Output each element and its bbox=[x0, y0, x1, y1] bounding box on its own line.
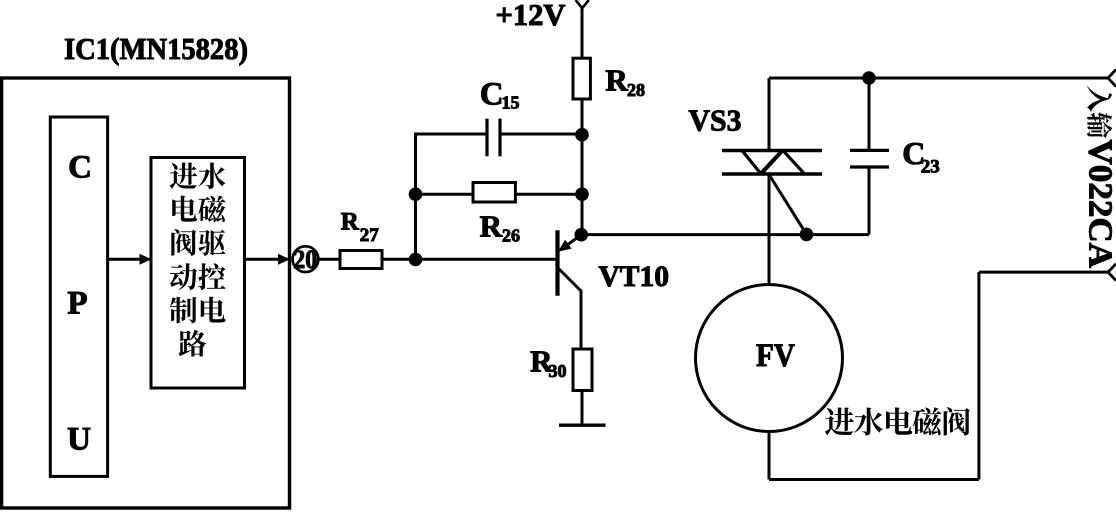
svg-text:28: 28 bbox=[627, 80, 645, 100]
svg-text:R: R bbox=[480, 209, 503, 244]
svg-text:30: 30 bbox=[549, 361, 567, 381]
svg-text:15: 15 bbox=[502, 93, 520, 113]
svg-text:26: 26 bbox=[502, 226, 520, 246]
svg-text:+12V: +12V bbox=[496, 0, 567, 32]
svg-text:23: 23 bbox=[921, 157, 940, 178]
svg-text:C: C bbox=[480, 77, 504, 113]
svg-text:VT10: VT10 bbox=[599, 260, 670, 293]
svg-text:C: C bbox=[68, 149, 92, 185]
svg-text:U: U bbox=[67, 422, 91, 458]
svg-text:P: P bbox=[67, 285, 87, 321]
svg-text:R: R bbox=[341, 209, 360, 236]
svg-text:IC1(MN15828): IC1(MN15828) bbox=[64, 31, 248, 66]
svg-text:FV: FV bbox=[756, 338, 795, 374]
svg-text:VS3: VS3 bbox=[689, 103, 742, 138]
svg-text:V022CA: V022CA bbox=[1082, 140, 1116, 269]
svg-text:27: 27 bbox=[360, 225, 380, 246]
svg-text:R: R bbox=[605, 62, 628, 97]
svg-text:20: 20 bbox=[293, 245, 317, 274]
